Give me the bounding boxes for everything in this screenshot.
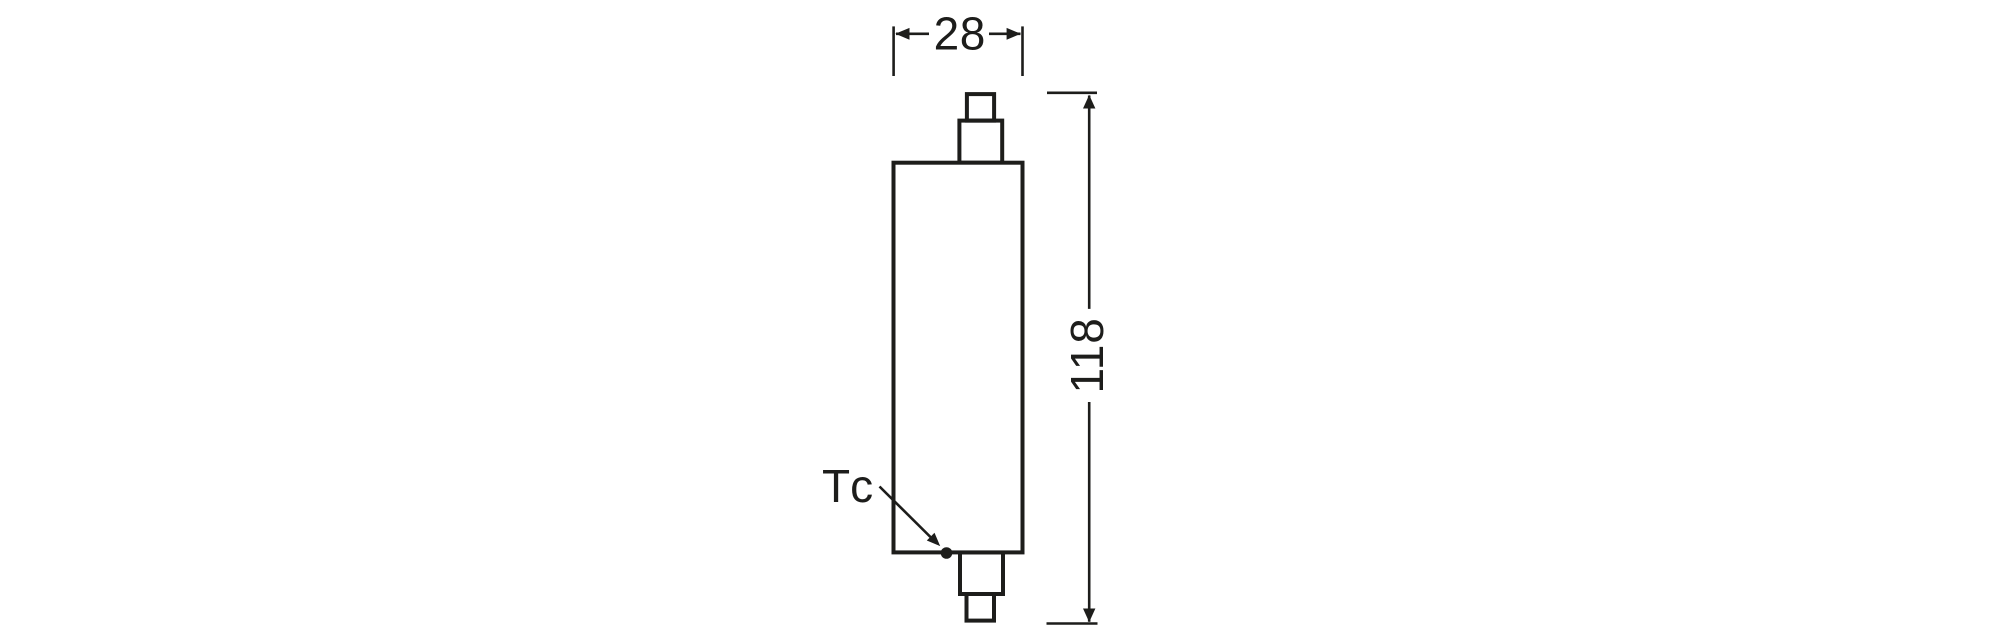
svg-text:Tc: Tc	[822, 460, 873, 512]
svg-text:28: 28	[934, 7, 986, 59]
svg-text:118: 118	[1061, 317, 1113, 393]
